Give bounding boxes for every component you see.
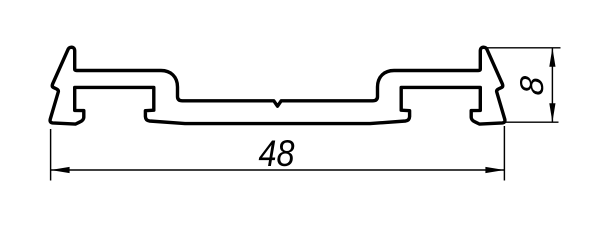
svg-text:48: 48: [259, 133, 295, 174]
